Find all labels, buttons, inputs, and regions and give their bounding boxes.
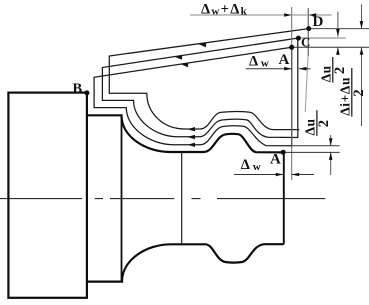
offset contour A (innermost thin path) [94,47,292,146]
node D dot [306,26,311,31]
node B dot [84,90,89,95]
extension line vertical from D (x=308) [307,8,309,56]
node A dot (top) [289,45,294,50]
svg-text:2: 2 [351,89,367,96]
dimension dw top [246,68,311,70]
svg-text:2: 2 [332,67,348,74]
node A dot (on profile) [281,150,286,155]
rotated label (di+du)/2 [337,68,367,117]
svg-text:Δw+Δk: Δw+Δk [201,2,248,18]
direction arrow on slant A [181,63,189,67]
centerline [0,198,325,200]
offset contour D (outermost thin path) [109,29,308,130]
offset contour C (middle thin path) [102,38,298,138]
workpiece chuck rectangle (thick) [8,93,87,298]
dimension du/2 (lower right, x=330.7) [330,135,332,175]
direction arrow on contour C flat [188,135,196,139]
direction arrow on contour A flat [188,143,196,147]
extension line from A to right [292,46,369,48]
step face edge line x=121.5 [121,115,123,281]
svg-text:Δ w: Δ w [241,157,261,173]
direction arrow on contour D flat [188,127,196,131]
extension of contour-A flat to right [292,145,340,147]
dimension (di+du)/2 (far right, x=361.5) [361,4,363,126]
svg-text:D: D [313,14,324,30]
extension of thick flat (through A) to right [283,151,339,153]
direction arrow on slant C [175,55,183,59]
svg-text:B: B [73,81,83,97]
right end face of part x=283.8 [283,152,285,244]
svg-text:A: A [279,52,290,68]
rotated label du/2 (top) [318,57,348,83]
rotated label du/2 (lower) [302,110,332,136]
extension line from C to right [298,37,345,39]
svg-text:A: A [270,152,281,168]
direction arrow on slant D [199,43,207,47]
part profile bottom half (thick, mirrored) [87,244,284,281]
svg-text:C: C [301,35,310,50]
extension line from D to right [309,28,369,30]
dimension dw+dk line [190,14,332,16]
svg-text:Δ w: Δ w [249,54,269,70]
extension line vertical from A (x=291.7) [291,7,293,180]
svg-text:2: 2 [316,120,332,127]
dimension dw bottom [234,174,314,176]
section edge line x=181.7 [181,152,183,244]
part profile top half (thick) [87,115,284,152]
node C dot [296,36,301,41]
dimension du/2 (top right, x=337.9) [337,12,339,55]
